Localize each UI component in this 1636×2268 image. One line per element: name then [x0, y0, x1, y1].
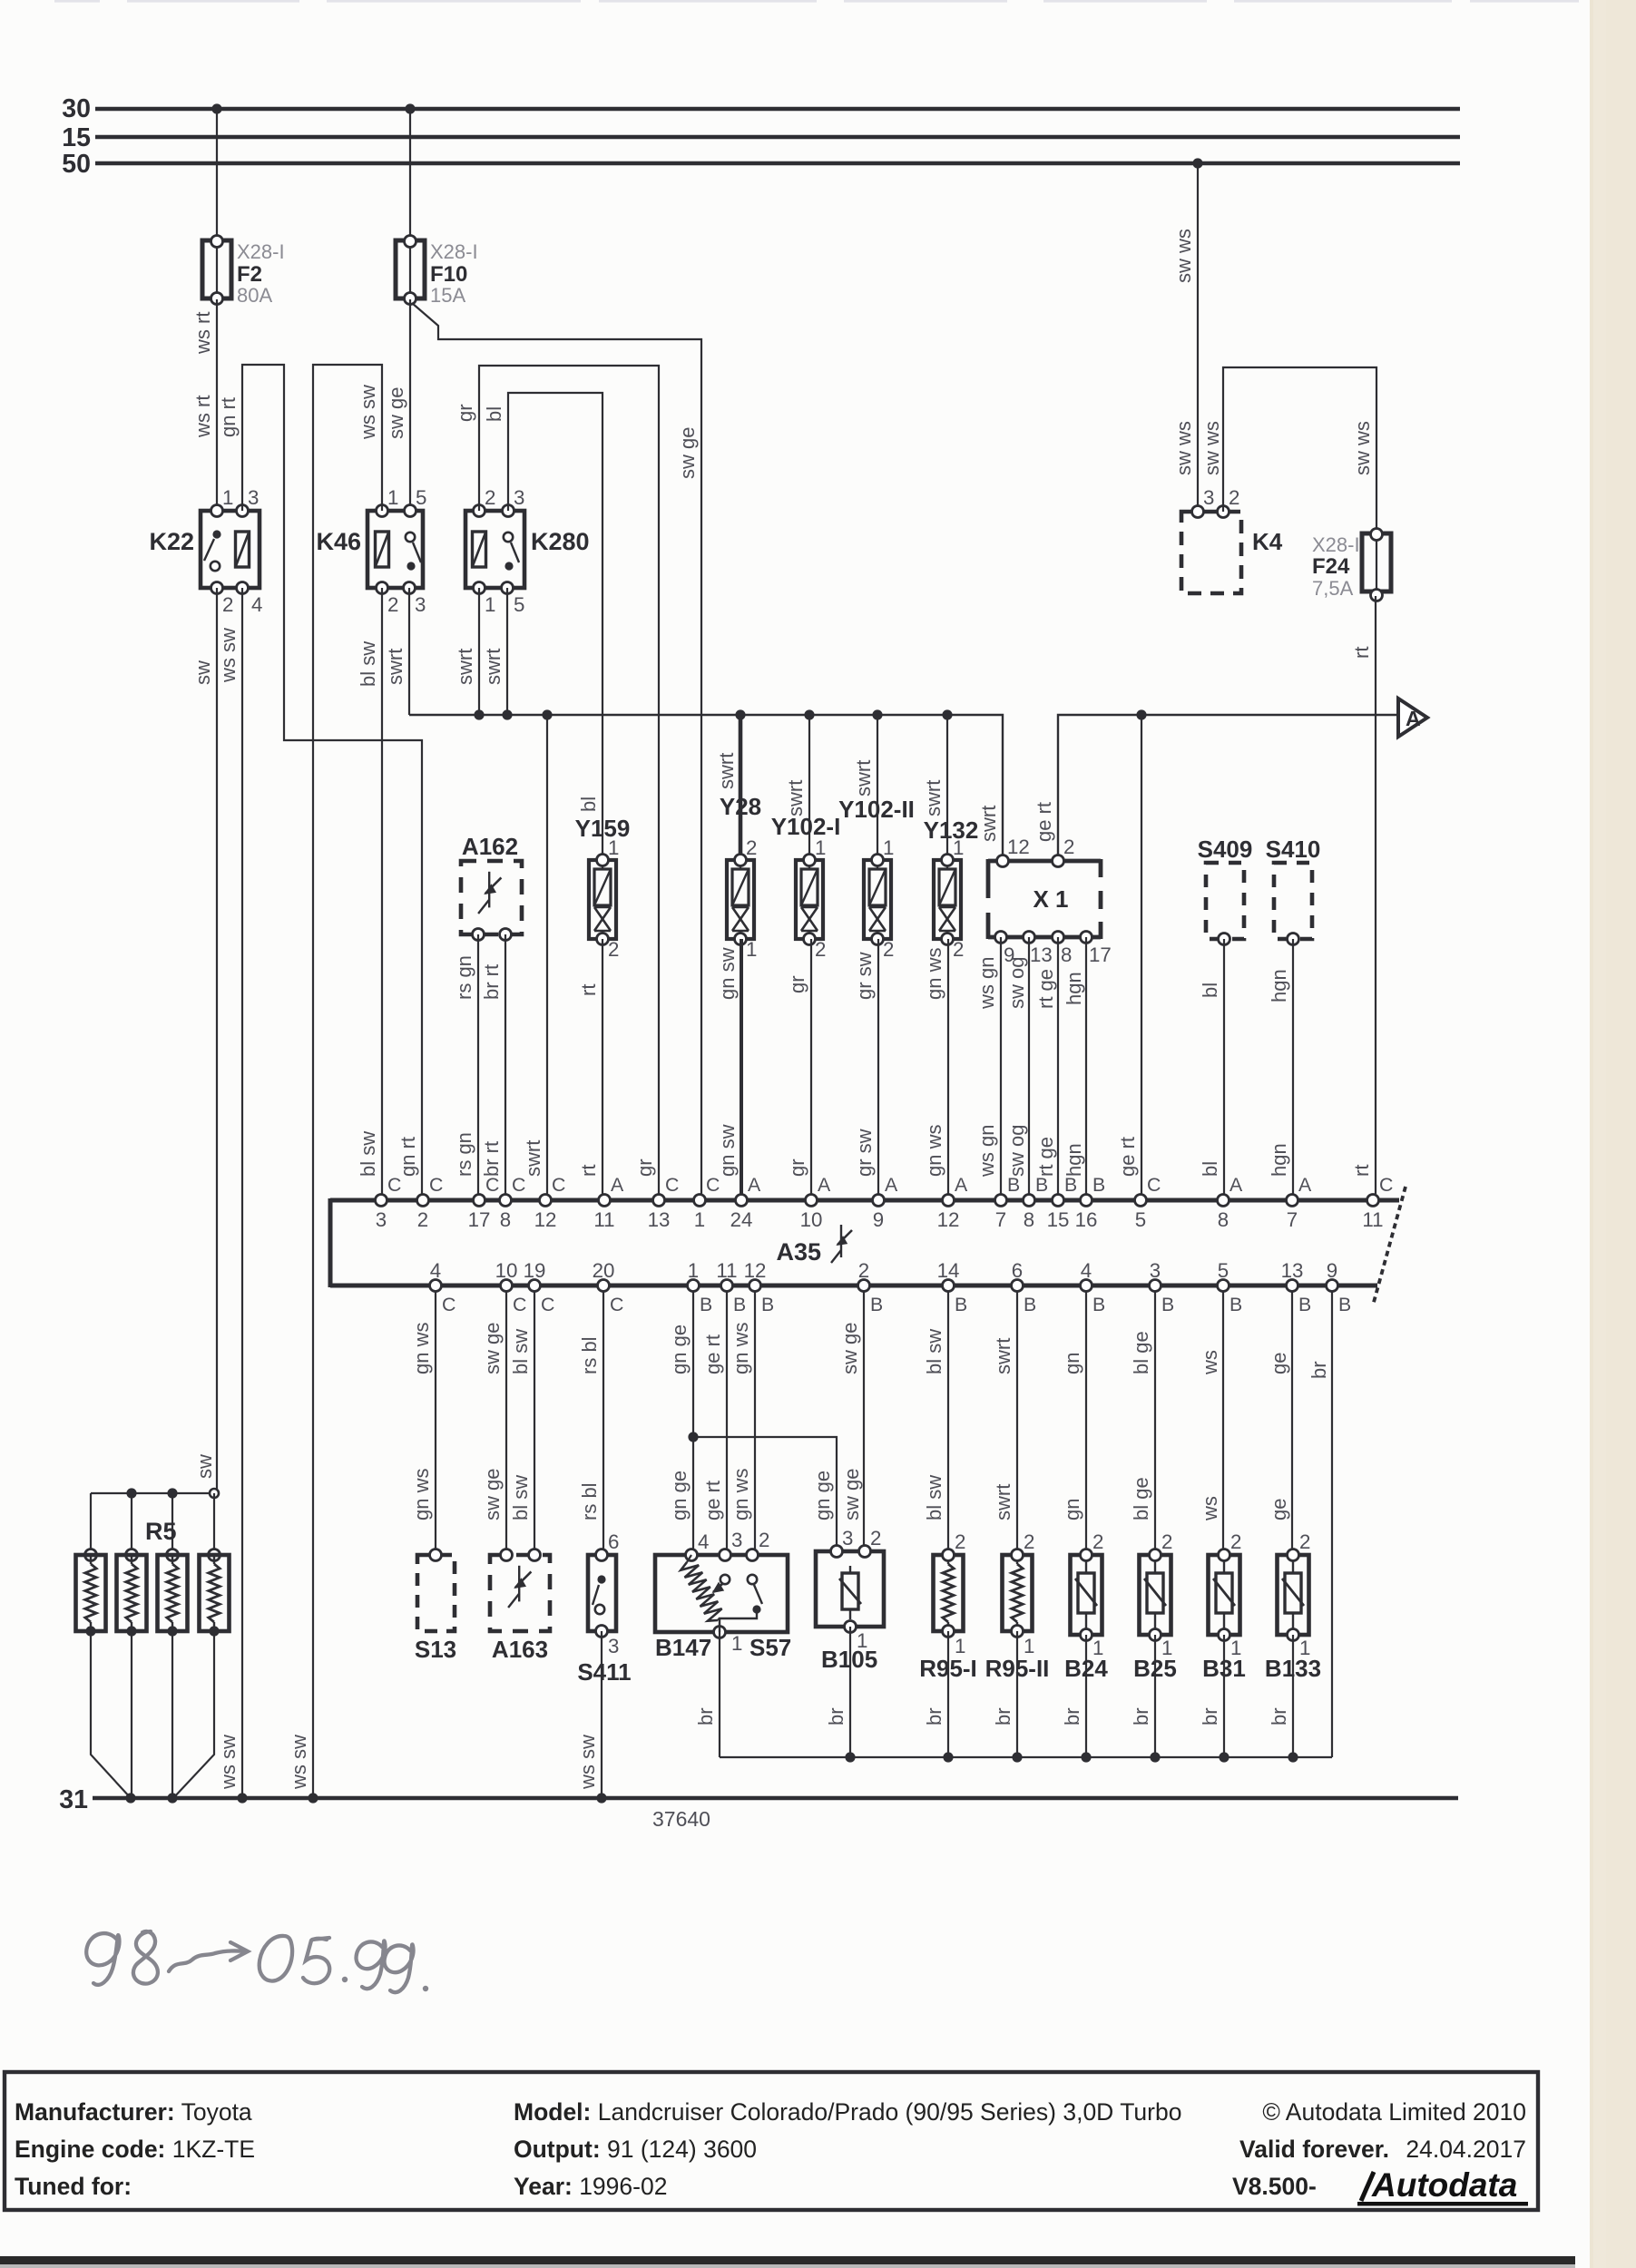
svg-text:16: 16 [1075, 1208, 1098, 1231]
wire A35 pin14 to R95-I, bl sw [947, 1292, 949, 1555]
svg-text:1: 1 [731, 1632, 742, 1655]
svg-text:br: br [1308, 1361, 1330, 1379]
bus 30 [95, 107, 1460, 111]
svg-text:swrt: swrt [522, 1140, 544, 1177]
svg-text:gn ws: gn ws [923, 1125, 945, 1177]
handwritten date range 98-05.99 [86, 1933, 119, 1985]
svg-text:10: 10 [800, 1208, 823, 1231]
svg-text:15: 15 [1047, 1208, 1070, 1231]
svg-text:hgn: hgn [1268, 1143, 1290, 1177]
svg-text:sw ge: sw ge [838, 1323, 861, 1374]
svg-text:2: 2 [870, 1527, 881, 1549]
svg-text:13: 13 [648, 1208, 671, 1231]
junction Y132 [942, 709, 952, 719]
control unit A162 [461, 861, 522, 934]
svg-text:ws sw: ws sw [357, 385, 379, 440]
svg-text:A: A [955, 1174, 968, 1196]
svg-text:bl sw: bl sw [509, 1475, 532, 1520]
svg-text:gr: gr [454, 404, 476, 422]
wire S409 to A35 pin8A, bl [1223, 939, 1225, 1194]
sensor B105 [816, 1551, 884, 1627]
junction K280 pin1 [474, 709, 484, 719]
svg-text:1: 1 [694, 1208, 705, 1231]
wire F10 to K46 pin5, sw ge [409, 299, 411, 511]
svg-text:C: C [387, 1174, 401, 1196]
svg-text:gn ws: gn ws [730, 1323, 752, 1374]
svg-text:8: 8 [500, 1208, 511, 1231]
svg-text:gr sw: gr sw [853, 952, 876, 1000]
connector X1 [988, 859, 1101, 864]
svg-text:3: 3 [1203, 486, 1214, 509]
svg-text:swrt: swrt [852, 760, 875, 797]
svg-text:C: C [541, 1294, 554, 1315]
top scan dashes [54, 0, 100, 3]
junction gn ge branch [688, 1432, 698, 1442]
svg-text:Output: 91 (124) 3600: Output: 91 (124) 3600 [514, 2136, 757, 2163]
resistor R5-4 [213, 1493, 215, 1555]
svg-text:B: B [1064, 1174, 1077, 1196]
svg-text:C: C [706, 1174, 720, 1196]
svg-text:bl sw: bl sw [357, 1131, 379, 1177]
svg-text:2: 2 [1230, 1530, 1241, 1553]
svg-text:ge: ge [1268, 1499, 1290, 1520]
svg-text:7: 7 [995, 1208, 1006, 1231]
svg-text:B: B [1092, 1174, 1105, 1196]
wire A162 right to A35 pin8, br rt [505, 934, 506, 1194]
svg-text:ws sw: ws sw [217, 628, 240, 683]
svg-text:ws: ws [1199, 1496, 1221, 1521]
svg-text:B: B [1161, 1294, 1174, 1315]
svg-text:bl: bl [1199, 982, 1221, 998]
svg-text:B: B [955, 1294, 967, 1315]
svg-text:ws sw: ws sw [576, 1735, 599, 1790]
wire F24 to A35 pin11, rt [1375, 596, 1376, 1194]
svg-text:gn ge: gn ge [668, 1471, 691, 1520]
svg-text:© Autodata Limited 2010: © Autodata Limited 2010 [1262, 2098, 1526, 2126]
svg-text:B: B [1007, 1174, 1020, 1196]
svg-text:X28-I: X28-I [237, 240, 285, 263]
svg-text:sw ws: sw ws [1351, 421, 1374, 475]
info table border [5, 2072, 1538, 2210]
wire A35 pin1B to B147 pin4, gn ge [692, 1292, 694, 1555]
svg-text:Engine code: 1KZ-TE: Engine code: 1KZ-TE [15, 2136, 255, 2163]
control unit A163 [490, 1555, 550, 1631]
svg-text:gn ge: gn ge [811, 1471, 834, 1520]
svg-text:2: 2 [955, 1530, 965, 1553]
svg-text:swrt: swrt [482, 649, 505, 685]
svg-text:sw: sw [193, 1454, 216, 1479]
svg-text:sw ge: sw ge [676, 427, 699, 479]
svg-text:13: 13 [1030, 943, 1053, 966]
svg-text:80A: 80A [237, 284, 272, 307]
svg-text:5: 5 [1135, 1208, 1146, 1231]
svg-text:1: 1 [485, 593, 495, 616]
ground rail br [720, 1756, 1332, 1758]
svg-text:swrt: swrt [384, 649, 407, 685]
svg-text:rt: rt [577, 1165, 600, 1177]
svg-text:4: 4 [698, 1530, 709, 1553]
wire S411 pin3 to bus31, ws sw [601, 1631, 602, 1798]
svg-text:9: 9 [1327, 1259, 1337, 1282]
svg-text:K280: K280 [531, 528, 590, 555]
svg-text:30: 30 [62, 94, 91, 123]
svg-text:sw ge: sw ge [481, 1323, 504, 1374]
svg-text:rs gn: rs gn [453, 1132, 475, 1177]
svg-text:11: 11 [593, 1208, 614, 1231]
wire S410 to A35 pin7A, hgn [1292, 939, 1294, 1194]
wire F2 to K22 pin1, ws rt [216, 299, 218, 511]
svg-text:S57: S57 [749, 1634, 791, 1661]
svg-text:bl sw: bl sw [357, 641, 379, 687]
relay K46 [367, 511, 423, 588]
svg-text:B: B [1024, 1294, 1036, 1315]
junction Y102-II [872, 709, 882, 719]
page right edge scan band [1590, 0, 1636, 2268]
wire A35 pin3B to B25, bl ge [1154, 1292, 1156, 1555]
wire X1 pin17 to A35 pin16, hgn [1085, 937, 1087, 1194]
svg-text:bl ge: bl ge [1130, 1331, 1152, 1374]
svg-text:ws rt: ws rt [191, 396, 214, 438]
wire A162 to A35 pin17, rs gn [477, 934, 479, 1194]
svg-text:13: 13 [1281, 1259, 1304, 1282]
wire X1 pin8 to A35 pin15, rt ge [1057, 937, 1059, 1194]
bus 31 [93, 1796, 1458, 1801]
sensor B31 [1209, 1555, 1240, 1635]
svg-text:swrt: swrt [715, 753, 738, 789]
svg-text:rt ge: rt ge [1034, 969, 1057, 1009]
svg-text:ws sw: ws sw [217, 1735, 240, 1790]
svg-text:24.04.2017: 24.04.2017 [1406, 2136, 1526, 2163]
svg-text:5: 5 [416, 486, 426, 509]
svg-text:C: C [513, 1294, 526, 1315]
svg-text:31: 31 [59, 1785, 88, 1814]
svg-text:Manufacturer: Toyota: Manufacturer: Toyota [15, 2098, 252, 2126]
svg-text:Year: 1996-02: Year: 1996-02 [514, 2173, 667, 2200]
svg-text:gn sw: gn sw [716, 947, 739, 1000]
svg-text:br: br [992, 1707, 1014, 1725]
svg-text:rs gn: rs gn [453, 955, 475, 1000]
svg-text:ws: ws [1199, 1350, 1221, 1375]
svg-text:gr: gr [633, 1158, 656, 1177]
svg-text:B: B [1338, 1294, 1351, 1315]
svg-text:2: 2 [222, 593, 233, 616]
svg-text:20: 20 [593, 1259, 615, 1282]
svg-text:br rt: br rt [480, 1141, 503, 1177]
switch S411 [588, 1555, 616, 1631]
svg-text:gn ws: gn ws [923, 948, 945, 1000]
resistor R5-2 [131, 1493, 132, 1555]
valve Y132 [946, 715, 948, 860]
svg-text:B: B [870, 1294, 883, 1315]
svg-text:ge: ge [1268, 1353, 1290, 1374]
svg-text:rt: rt [577, 984, 600, 996]
svg-text:2: 2 [485, 486, 495, 509]
svg-text:B: B [1035, 1174, 1048, 1196]
svg-text:2: 2 [608, 938, 619, 961]
fuse F10 [409, 240, 411, 299]
svg-text:3: 3 [1150, 1259, 1161, 1282]
svg-text:8: 8 [1061, 943, 1072, 966]
svg-text:3: 3 [415, 593, 426, 616]
svg-text:14: 14 [937, 1259, 960, 1282]
wire X1 pin13 to A35 pin8, sw og [1028, 937, 1030, 1194]
wire K22 pin2 to R5, sw [216, 588, 218, 1493]
svg-text:17: 17 [1089, 943, 1112, 966]
svg-text:gr sw: gr sw [853, 1129, 876, 1177]
valve Y28 bold wire [739, 715, 743, 860]
svg-text:ge rt: ge rt [701, 1481, 724, 1520]
ECU A35 [330, 1198, 1399, 1203]
svg-text:1: 1 [815, 836, 826, 859]
svg-text:2: 2 [417, 1208, 428, 1231]
wire A35 pin12B to B147 pin2, gn ws [754, 1292, 756, 1555]
svg-text:C: C [1147, 1174, 1161, 1196]
node A line left segment [409, 715, 1003, 860]
resistor R5-1 [90, 1493, 92, 1555]
wire bus30 to F10 [409, 109, 411, 240]
svg-text:A: A [1229, 1174, 1243, 1196]
svg-text:S13: S13 [415, 1636, 456, 1663]
wire A35 pin10 to A163, sw ge [505, 1292, 507, 1554]
wire A35 pin9B to ground rail, br [1331, 1292, 1333, 1757]
svg-text:sw: sw [191, 660, 214, 685]
connector S409 [1206, 863, 1244, 939]
wire node A to A35 pin12, swrt [546, 715, 548, 1194]
wire F10 branch to A35 pin1, sw ge [412, 303, 701, 1194]
valve Y102-II [877, 715, 878, 860]
wire Y28 to A35 pin24, gn sw [740, 939, 743, 1194]
R5 wires to bus31 [91, 1631, 131, 1798]
svg-text:V8.500-: V8.500- [1232, 2173, 1317, 2200]
svg-text:A: A [748, 1174, 761, 1196]
svg-text:swrt: swrt [454, 649, 476, 685]
svg-text:rt: rt [1350, 1165, 1373, 1177]
svg-text:12: 12 [534, 1208, 557, 1231]
junction bus30/F10 [405, 103, 415, 113]
svg-text:sw ge: sw ge [840, 1469, 863, 1520]
wire bus30 to F2, ws rt [216, 109, 218, 240]
resistor R95-I [934, 1555, 964, 1631]
svg-text:2: 2 [387, 593, 398, 616]
svg-text:2: 2 [1161, 1530, 1172, 1553]
svg-text:br: br [923, 1707, 945, 1725]
junction K280 pin5 [502, 709, 512, 719]
junction Y28 [735, 709, 745, 719]
svg-text:19: 19 [524, 1259, 546, 1282]
svg-text:ge rt: ge rt [701, 1334, 724, 1374]
svg-text:1: 1 [608, 836, 619, 859]
junction Y102-I [804, 709, 814, 719]
svg-text:ws sw: ws sw [288, 1735, 310, 1790]
svg-text:11: 11 [1362, 1208, 1383, 1231]
wire A35 pin20 to S411, rs bl [602, 1292, 604, 1554]
wire K46 pin1 to bus31, ws sw [313, 365, 382, 1798]
svg-text:C: C [442, 1294, 456, 1315]
svg-text:br: br [1061, 1707, 1083, 1725]
svg-text:B: B [1298, 1294, 1311, 1315]
resistor R5-3 [171, 1493, 173, 1555]
junction swrt to A35 pin12 [542, 709, 552, 719]
svg-text:B147: B147 [655, 1634, 711, 1661]
svg-text:Model: Landcruiser Colorado/Pr: Model: Landcruiser Colorado/Prado (90/95… [514, 2098, 1181, 2126]
svg-text:ge rt: ge rt [1033, 802, 1055, 842]
wire K280 pin3 to Y159, bl [508, 393, 602, 860]
svg-text:F24: F24 [1312, 554, 1350, 579]
wire Y159 to A35 pin11, rt [602, 939, 603, 1194]
svg-text:3: 3 [248, 486, 259, 509]
svg-text:Y132: Y132 [924, 816, 979, 844]
wire K22 pin3 to A35 pin2, gn rt [242, 365, 422, 1194]
sensor B25 [1140, 1555, 1171, 1635]
svg-text:A: A [1298, 1174, 1312, 1196]
svg-text:12: 12 [937, 1208, 960, 1231]
svg-text:1: 1 [746, 938, 757, 961]
svg-text:11: 11 [716, 1259, 737, 1282]
svg-text:3: 3 [514, 486, 524, 509]
S57 wiper arrow [720, 1575, 730, 1584]
wire K46 pin2 to A35 pin3, bl sw [381, 588, 383, 1194]
bus 50 [95, 161, 1460, 165]
svg-text:2: 2 [815, 938, 826, 961]
svg-text:Valid forever.: Valid forever. [1239, 2136, 1389, 2163]
svg-text:swrt: swrt [784, 780, 807, 816]
svg-text:B: B [700, 1294, 712, 1315]
wire K280 pin1 to node A, swrt [478, 588, 480, 715]
svg-text:2: 2 [1024, 1530, 1034, 1553]
svg-text:gn ws: gn ws [410, 1469, 433, 1520]
svg-text:Y159: Y159 [575, 815, 631, 842]
svg-text:8: 8 [1024, 1208, 1034, 1231]
svg-text:gr: gr [786, 975, 808, 993]
sensor B24 [1071, 1555, 1102, 1635]
fuse F24 [1376, 533, 1377, 596]
wire A35 pin5B to B31, ws [1222, 1292, 1224, 1555]
svg-text:10: 10 [495, 1259, 518, 1282]
svg-text:3: 3 [608, 1635, 619, 1657]
wire K4 pin2 to F24, sw ws [1223, 367, 1376, 533]
svg-text:3: 3 [731, 1529, 742, 1551]
svg-text:gn ws: gn ws [730, 1469, 752, 1520]
svg-text:C: C [1379, 1174, 1393, 1196]
svg-text:rt: rt [1350, 647, 1373, 659]
svg-text:ge rt: ge rt [1116, 1137, 1139, 1177]
wire K280 pin2 to A35 pin13, gr [479, 366, 659, 1194]
junction ge rt branch [1136, 709, 1146, 719]
svg-text:7: 7 [1287, 1208, 1298, 1231]
svg-text:1: 1 [688, 1259, 699, 1282]
svg-text:5: 5 [514, 593, 524, 616]
svg-text:K22: K22 [149, 528, 194, 555]
svg-text:12: 12 [744, 1259, 767, 1282]
node A arrow [1398, 699, 1427, 737]
wire A35 pin13B to B133, ge [1291, 1292, 1293, 1555]
svg-text:6: 6 [1012, 1259, 1023, 1282]
wire B105 to ground rail, br [849, 1627, 851, 1757]
svg-text:2: 2 [1229, 486, 1239, 509]
wire B147 pin1 to rail, br [719, 1632, 720, 1757]
A35 top pins [376, 1195, 387, 1207]
svg-text:S409: S409 [1198, 836, 1253, 863]
svg-text:swrt: swrt [992, 1484, 1014, 1520]
svg-text:Autodata: Autodata [1371, 2166, 1517, 2204]
svg-text:swrt: swrt [992, 1338, 1014, 1374]
svg-text:7,5A: 7,5A [1312, 577, 1354, 600]
valve Y102-I [808, 715, 810, 860]
svg-text:3: 3 [842, 1527, 853, 1549]
wire bus50 to K4 pin3, sw ws [1197, 163, 1199, 512]
svg-text:sw ws: sw ws [1172, 421, 1195, 475]
svg-text:ws rt: ws rt [191, 312, 214, 355]
svg-text:C: C [610, 1294, 623, 1315]
bus 15 [95, 135, 1460, 139]
svg-text:2: 2 [1092, 1530, 1103, 1553]
svg-text:S411: S411 [577, 1658, 631, 1686]
svg-text:9: 9 [873, 1208, 884, 1231]
wire node A to A35 pin5, ge rt [1141, 715, 1142, 1194]
wire Y102-II to A35 pin9, gr sw [877, 939, 879, 1194]
svg-text:gn sw: gn sw [716, 1124, 739, 1177]
svg-text:K4: K4 [1252, 528, 1283, 555]
svg-text:bl ge: bl ge [1130, 1477, 1152, 1520]
svg-text:br: br [1268, 1707, 1290, 1725]
A35 bottom pins [430, 1280, 442, 1292]
svg-text:rs bl: rs bl [578, 1336, 601, 1374]
svg-text:2: 2 [883, 938, 894, 961]
svg-text:B: B [761, 1294, 774, 1315]
svg-text:15A: 15A [430, 284, 465, 307]
svg-text:br: br [1199, 1707, 1221, 1725]
svg-text:sw og: sw og [1005, 1125, 1028, 1177]
svg-text:1: 1 [953, 836, 964, 859]
svg-text:bl sw: bl sw [509, 1329, 532, 1374]
svg-text:gn: gn [1061, 1499, 1083, 1520]
svg-text:gn ws: gn ws [410, 1323, 433, 1374]
svg-text:gn ge: gn ge [668, 1325, 691, 1374]
svg-text:br rt: br rt [480, 964, 503, 1000]
wire A35 pin11B to B147 pin3, ge rt [726, 1292, 728, 1555]
svg-text:sw ws: sw ws [1200, 421, 1223, 475]
connector S410 [1274, 863, 1312, 939]
svg-text:rt ge: rt ge [1034, 1137, 1057, 1177]
svg-text:4: 4 [251, 593, 262, 616]
svg-text:bl: bl [577, 797, 600, 812]
svg-text:A: A [818, 1174, 831, 1196]
svg-text:A162: A162 [462, 833, 518, 860]
svg-text:C: C [665, 1174, 679, 1196]
svg-text:2: 2 [759, 1529, 769, 1551]
svg-text:X28-I: X28-I [430, 240, 478, 263]
svg-text:2: 2 [953, 938, 964, 961]
fuse F2 [216, 240, 218, 299]
svg-text:sw ws: sw ws [1172, 229, 1195, 283]
wire A35 pin19 to A163, bl sw [534, 1292, 535, 1554]
rail junctions [845, 1752, 855, 1762]
svg-text:S410: S410 [1266, 836, 1321, 863]
connector S13 [417, 1555, 455, 1631]
relay K280 [465, 511, 524, 588]
junction bus30/F2 [211, 103, 221, 113]
svg-text:rs bl: rs bl [578, 1482, 601, 1520]
svg-text:bl sw: bl sw [923, 1475, 945, 1520]
svg-text:4: 4 [430, 1259, 441, 1282]
svg-text:swrt: swrt [922, 780, 945, 816]
svg-text:6: 6 [608, 1530, 619, 1553]
wire K46 pin3 to node A line, swrt [408, 588, 410, 715]
svg-text:2: 2 [746, 836, 757, 859]
sensor B133 [1278, 1555, 1309, 1635]
R5 top rail [91, 1492, 214, 1494]
svg-text:B: B [1229, 1294, 1242, 1315]
